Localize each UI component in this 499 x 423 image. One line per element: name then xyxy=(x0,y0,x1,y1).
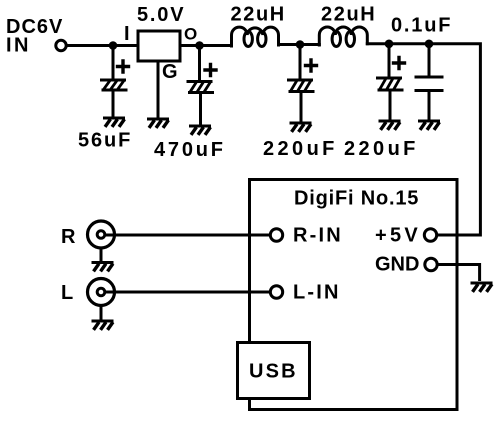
svg-text:R: R xyxy=(61,226,76,248)
svg-text:470uF: 470uF xyxy=(154,139,226,161)
svg-text:22uH: 22uH xyxy=(231,4,286,26)
svg-text:+5V: +5V xyxy=(375,224,421,246)
svg-text:22uH: 22uH xyxy=(321,4,376,26)
svg-text:GND: GND xyxy=(375,254,419,276)
svg-text:56uF: 56uF xyxy=(78,130,132,152)
svg-text:IN: IN xyxy=(6,35,31,57)
svg-text:I: I xyxy=(124,23,131,45)
svg-text:L: L xyxy=(61,282,74,304)
svg-text:220uF: 220uF xyxy=(344,138,419,160)
svg-text:L-IN: L-IN xyxy=(293,281,341,303)
svg-text:220uF: 220uF xyxy=(263,138,338,160)
svg-text:G: G xyxy=(162,61,179,83)
svg-text:R-IN: R-IN xyxy=(293,224,343,246)
svg-text:USB: USB xyxy=(249,361,298,383)
svg-text:0.1uF: 0.1uF xyxy=(391,15,452,37)
svg-text:DigiFi No.15: DigiFi No.15 xyxy=(294,188,419,210)
svg-text:O: O xyxy=(184,25,198,44)
svg-text:5.0V: 5.0V xyxy=(137,4,185,26)
